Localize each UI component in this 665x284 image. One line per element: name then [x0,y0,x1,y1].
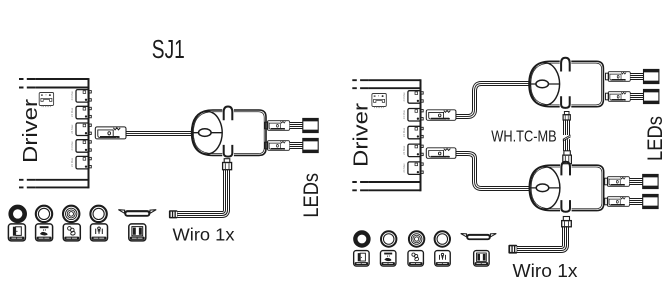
driver D1 terminal icon [39,93,53,108]
driver D2 port 3 [402,126,423,139]
svg-text:LEDs: LEDs [300,173,323,218]
driver D1 port 4 [70,140,91,153]
icon square touch right [408,251,423,266]
icon square hand right [380,251,395,266]
output row J1-A [265,118,318,132]
driver D1 port 5 [70,156,91,169]
driver D1 port 1 [70,90,91,103]
plug D2-B [426,148,456,159]
icon square pir left [91,224,108,241]
icon ring 4 left [90,206,106,222]
wiro cable W1 [178,170,227,215]
output row J3-A [605,174,658,188]
cable D2 to junction J2 [456,84,530,117]
junction device J2 [529,57,603,109]
output row J2-A [606,69,659,83]
output row J1-B [265,138,318,152]
icon ring 3 right [409,231,424,246]
cable driver to junction [126,131,192,136]
icon square touch left [63,224,80,241]
driver D1 port 3 [70,123,91,136]
output row J2-B [606,89,659,103]
link cable WH.TC-MB [563,120,571,151]
wiro cable W2 [517,226,566,249]
icon square doors left [129,224,146,241]
link plug at J3 top [563,151,572,164]
svg-text:SJ1: SJ1 [152,34,185,64]
input plug P1 [95,127,126,139]
icon ring 4 right [435,231,450,246]
svg-text:WH.TC-MB: WH.TC-MB [491,129,556,146]
icon square pir right [435,251,450,266]
driver D2 port 1 [402,91,423,104]
icon ring 2 right [381,231,396,246]
junction device J3 [529,161,603,213]
driver D1 port 2 [70,106,91,119]
wiro end plug [169,210,178,218]
wiro end plug right [508,245,517,254]
driver D2 terminal icon [372,94,386,109]
cable D2 to junction J3 [456,154,530,189]
svg-text:Wiro 1x: Wiro 1x [513,261,578,281]
svg-text:Wiro 1x: Wiro 1x [173,225,235,245]
wiro plug at junction J3 [562,217,572,227]
icon ring 1 right [355,232,368,245]
driver D2 port 4 [402,144,423,157]
wiro plug at junction J1 [223,159,232,170]
icon ring 1 left [11,207,25,221]
svg-text:Driver: Driver [19,99,42,163]
plug D2-A [426,110,456,121]
icon square door left [8,224,25,241]
driver D2 port 2 [402,109,423,122]
driver D1 box [19,78,89,188]
svg-text:LEDs: LEDs [644,116,665,161]
icon square door right [354,251,369,266]
icon ring 2 left [36,206,52,222]
link plug at J2 bottom [563,112,570,121]
svg-text:Driver: Driver [349,103,372,167]
icon profile left [118,210,156,217]
driver D2 port 5 [402,162,423,175]
icon square doors right [474,251,489,266]
driver D2 box [352,79,420,191]
icon ring 3 left [63,206,79,222]
icon square hand left [36,224,53,241]
icon profile right [461,234,497,241]
junction device J1 [192,105,266,157]
output row J3-B [605,194,658,208]
